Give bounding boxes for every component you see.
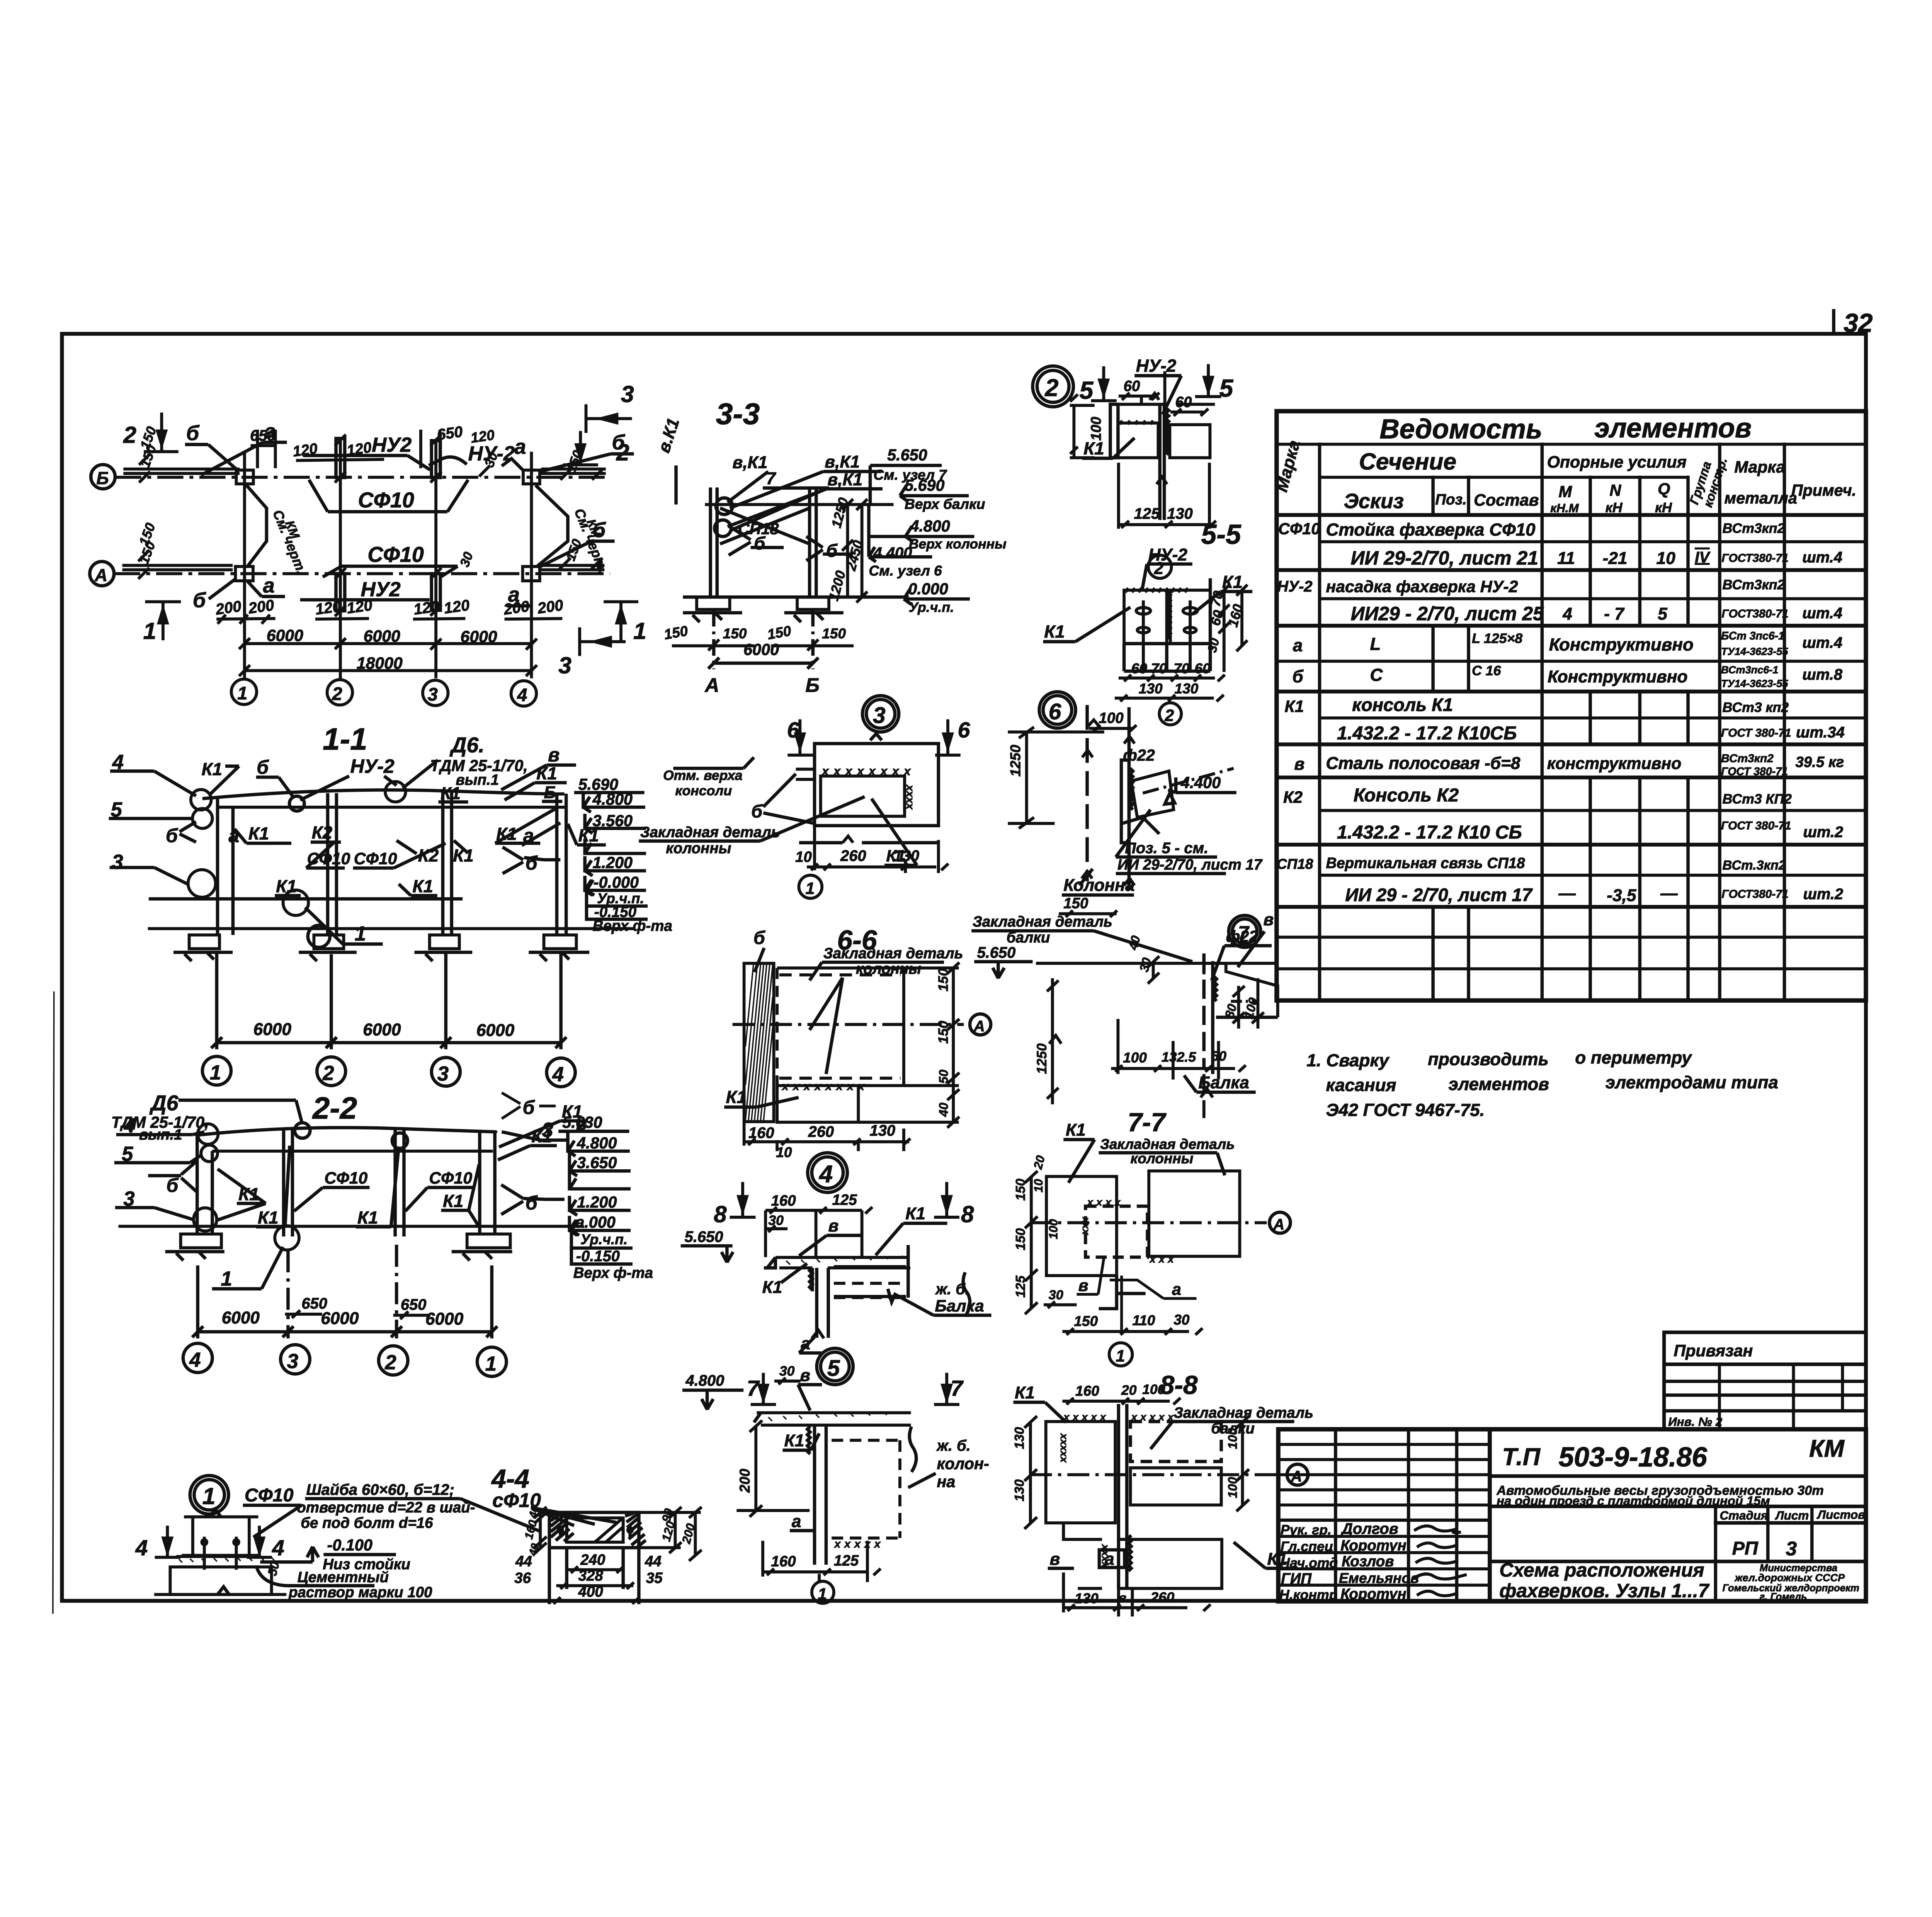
svg-text:электродами типа: электродами типа: [1605, 1073, 1778, 1092]
column 1 shaft: [480, 1132, 495, 1234]
svg-text:Эскиз: Эскиз: [1344, 490, 1404, 513]
ground line: [148, 927, 633, 931]
footing col1: [467, 1234, 510, 1248]
svg-text:СФ10: СФ10: [1278, 520, 1320, 538]
svg-text:Конструктивно: Конструктивно: [1548, 667, 1687, 686]
svg-text:металла: металла: [1725, 489, 1797, 507]
svg-text:ГОСТ380-71: ГОСТ380-71: [1722, 552, 1789, 565]
svg-text:шт.4: шт.4: [1802, 634, 1842, 651]
svg-text:БСт 3пс6-1: БСт 3пс6-1: [1721, 630, 1784, 642]
console line: [212, 1149, 493, 1153]
svg-text:Консоль К2: Консоль К2: [1354, 785, 1459, 806]
section mark 3 top right: [586, 404, 632, 433]
svg-text:Закладная деталь: Закладная деталь: [973, 913, 1112, 930]
svg-text:10: 10: [776, 1144, 792, 1160]
svg-text:35: 35: [646, 1570, 663, 1586]
svg-text:130: 130: [870, 1122, 896, 1139]
top beam: [197, 1128, 496, 1135]
corner hatches: [551, 1513, 646, 1547]
svg-text:125: 125: [832, 1192, 857, 1208]
axis tails to dim line: [217, 953, 561, 1049]
break squiggle top: [870, 734, 882, 740]
NODE1: [135, 1476, 540, 1601]
svg-text:кН.М: кН.М: [1550, 502, 1579, 515]
svg-text:200: 200: [736, 1468, 753, 1493]
svg-text:Д6: Д6: [150, 1091, 179, 1115]
svg-text:1.432.2 - 17.2 К10 СБ: 1.432.2 - 17.2 К10 СБ: [1337, 822, 1522, 843]
fachwerk post B2: [336, 439, 345, 478]
column 3 shaft: [284, 1129, 293, 1237]
column lines: [1204, 953, 1213, 1074]
svg-text:40: 40: [936, 1102, 951, 1117]
svg-text:А: А: [1273, 1216, 1284, 1233]
svg-text:60: 60: [1124, 378, 1140, 395]
beam bar B left: [122, 469, 605, 570]
node bubble 4: [808, 1153, 847, 1192]
svg-text:160: 160: [748, 1124, 774, 1141]
svg-text:К1: К1: [443, 1191, 463, 1211]
svg-text:НУ-2: НУ-2: [350, 755, 394, 777]
SEC22: [111, 1091, 653, 1376]
left hook: [754, 1413, 761, 1422]
svg-text:5: 5: [1658, 605, 1668, 624]
svg-text:3: 3: [873, 703, 886, 728]
dash-dot diagonal: [1143, 768, 1234, 793]
svg-text:колон-: колон-: [937, 1455, 989, 1473]
svg-text:8-8: 8-8: [1160, 1371, 1198, 1400]
svg-text:100: 100: [1123, 1050, 1147, 1066]
svg-text:НУ-2: НУ-2: [1148, 545, 1188, 564]
axis A: [1030, 1221, 1267, 1225]
svg-text:xxx: xxx: [1149, 1253, 1177, 1265]
svg-text:Верх балки: Верх балки: [905, 496, 985, 512]
svg-text:130: 130: [1012, 1479, 1027, 1501]
svg-text:б: б: [257, 757, 269, 778]
svg-text:6000: 6000: [425, 1310, 464, 1328]
svg-text:НУ2: НУ2: [372, 434, 412, 456]
svg-text:xxxx: xxxx: [904, 784, 916, 810]
bolts left plate: [1136, 600, 1197, 672]
svg-text:3: 3: [287, 1350, 298, 1373]
svg-text:5.690: 5.690: [905, 476, 944, 494]
svg-text:-21: -21: [1603, 549, 1628, 568]
svg-text:б: б: [753, 927, 766, 948]
svg-text:125: 125: [1134, 505, 1160, 522]
svg-text:в: в: [1050, 1550, 1060, 1568]
speckles on plate: [786, 1256, 905, 1265]
left plate: [1046, 1177, 1117, 1276]
svg-text:в: в: [1294, 755, 1304, 774]
svg-text:100: 100: [1225, 1428, 1240, 1449]
svg-text:К1: К1: [258, 1208, 278, 1227]
svg-text:60: 60: [1195, 660, 1211, 677]
svg-text:б: б: [526, 852, 538, 874]
SHEET-FRAME: [53, 309, 1873, 1614]
svg-text:ИИ 29-2/70, лист 17: ИИ 29-2/70, лист 17: [1117, 857, 1263, 873]
svg-text:150: 150: [935, 1021, 951, 1044]
svg-text:шт.2: шт.2: [1803, 886, 1843, 903]
svg-text:ТУ14-3623-55: ТУ14-3623-55: [1721, 677, 1788, 689]
bolt marks inside: [558, 1526, 633, 1537]
weld dots on K1 top: [1120, 421, 1153, 424]
svg-text:44: 44: [515, 1553, 532, 1570]
grout speckle band: [176, 1556, 260, 1567]
K1 plate below: [777, 1085, 858, 1122]
table horizontal lines: [1277, 444, 1866, 969]
node circle col2 top: [392, 1133, 408, 1148]
footing col4: [544, 935, 576, 949]
break marks bottom: [1082, 871, 1134, 885]
node circle col3 top: [295, 1123, 310, 1138]
svg-text:7-7: 7-7: [1128, 1108, 1167, 1137]
svg-text:К1: К1: [531, 1126, 552, 1146]
svg-text:бе под болт d=16: бе под болт d=16: [301, 1515, 433, 1531]
svg-text:xxxxx: xxxxx: [1063, 1411, 1109, 1423]
right plate: [1170, 425, 1210, 458]
bubble 1: [1109, 1343, 1133, 1366]
dim line 6000s: [245, 641, 532, 646]
svg-text:конструктивно: конструктивно: [1547, 754, 1682, 773]
svg-text:элементов: элементов: [1594, 413, 1752, 444]
svg-text:3.650: 3.650: [577, 1154, 617, 1172]
lower left lines: [799, 840, 843, 845]
top plate: [757, 1413, 911, 1425]
svg-text:4: 4: [1562, 605, 1572, 624]
svg-text:Емельянов: Емельянов: [1339, 1570, 1419, 1586]
column axis 1: [242, 452, 247, 679]
svg-text:Т.П: Т.П: [1502, 1443, 1541, 1470]
svg-text:Поз.: Поз.: [1435, 492, 1466, 508]
svg-text:в: в: [548, 744, 560, 766]
section mark 3 bottom right: [580, 628, 626, 656]
svg-text:К1: К1: [357, 1208, 378, 1227]
svg-text:1.200: 1.200: [577, 1193, 617, 1211]
svg-text:1-1: 1-1: [323, 722, 367, 756]
svg-text:200: 200: [536, 597, 564, 617]
svg-text:К1: К1: [413, 876, 433, 896]
svg-text:а: а: [1293, 636, 1303, 655]
svg-text:элементов: элементов: [1449, 1074, 1549, 1094]
page number tick: [1832, 309, 1836, 335]
NODE3: [639, 696, 970, 898]
svg-text:К1: К1: [276, 876, 296, 896]
svg-text:а: а: [514, 435, 526, 459]
svg-text:К2: К2: [418, 845, 439, 865]
svg-text:1.200: 1.200: [593, 854, 633, 871]
top flange line: [1119, 402, 1215, 407]
svg-text:на: на: [937, 1473, 955, 1490]
outer rect: [549, 1512, 639, 1548]
svg-text:4: 4: [272, 1536, 284, 1560]
svg-text:10: 10: [1656, 549, 1676, 568]
weld zigzag on plate: [1130, 768, 1133, 810]
TITLEBLOCK: [1278, 1332, 1866, 1602]
svg-text:СФ10: СФ10: [325, 1169, 368, 1187]
svg-text:Б: Б: [544, 783, 556, 802]
svg-text:2: 2: [123, 422, 136, 448]
svg-text:8: 8: [961, 1201, 974, 1227]
svg-text:ИИ 29-2/70, лист 21: ИИ 29-2/70, лист 21: [1351, 547, 1538, 569]
svg-text:Гл.спец: Гл.спец: [1281, 1539, 1333, 1554]
svg-text:2-2: 2-2: [312, 1091, 357, 1125]
NODE7: [971, 910, 1277, 1118]
svg-text:Рук. гр.: Рук. гр.: [1281, 1522, 1332, 1538]
plate on column: [1121, 760, 1129, 843]
svg-text:200: 200: [214, 598, 242, 618]
svg-text:вып.1: вып.1: [456, 772, 499, 788]
svg-text:в: в: [1264, 910, 1274, 929]
title block right horizontal lines: [1490, 1476, 1866, 1561]
svg-text:30: 30: [768, 1213, 784, 1228]
axis tails: [198, 1245, 492, 1338]
node circle col3 top: [385, 782, 406, 802]
svg-text:160: 160: [771, 1192, 796, 1209]
beam end plate right: [834, 1245, 908, 1298]
right plate: [1170, 590, 1210, 643]
svg-text:Марка: Марка: [1734, 458, 1785, 476]
svg-text:в: в: [1078, 1276, 1088, 1295]
beam top line: [1036, 961, 1278, 965]
svg-text:Поз. 5 - см.: Поз. 5 - см.: [1125, 840, 1208, 857]
middle weld strip: [1168, 592, 1170, 639]
NODE6: [1007, 692, 1263, 917]
svg-text:10: 10: [795, 849, 812, 866]
svg-text:ВСт3 КП2: ВСт3 КП2: [1723, 791, 1792, 807]
svg-text:ВСт3кп2: ВСт3кп2: [1721, 752, 1774, 765]
bubble 2 below: [1148, 555, 1172, 578]
svg-text:б: б: [523, 1097, 535, 1118]
svg-text:—: —: [1660, 884, 1678, 903]
svg-text:1: 1: [202, 1483, 216, 1509]
column 4 shaft: [557, 794, 566, 935]
section mark 1 right: [604, 602, 638, 640]
svg-text:Закладная деталь: Закладная деталь: [823, 945, 963, 962]
column 2 shaft: [395, 1129, 404, 1237]
svg-text:4.800: 4.800: [685, 1372, 724, 1389]
svg-text:К1: К1: [1083, 439, 1104, 458]
svg-text:400: 400: [578, 1584, 604, 1600]
svg-text:1: 1: [237, 683, 247, 703]
svg-text:А: А: [1291, 1468, 1302, 1485]
svg-text:130: 130: [1174, 680, 1198, 697]
svg-text:150: 150: [1063, 895, 1088, 912]
fachwerk post A2: [336, 574, 345, 611]
right plate mid: [1130, 1468, 1221, 1505]
svg-text:РП: РП: [1732, 1538, 1759, 1559]
svg-text:Н.контр: Н.контр: [1279, 1587, 1337, 1602]
svg-text:4.800: 4.800: [910, 517, 950, 535]
svg-text:1: 1: [355, 922, 366, 945]
svg-text:ф22: ф22: [1123, 746, 1155, 764]
top plate: [776, 1255, 908, 1260]
svg-text:xxxx: xxxx: [1087, 1196, 1124, 1208]
lower part lines: [1124, 578, 1210, 671]
svg-text:125: 125: [834, 1553, 859, 1569]
speckles: [768, 1412, 886, 1421]
svg-text:1: 1: [806, 879, 815, 898]
svg-text:-0.000: -0.000: [594, 874, 639, 891]
column axis 3: [434, 441, 438, 678]
column axis 4: [529, 452, 534, 679]
svg-text:а: а: [1172, 1280, 1181, 1299]
right plate upper dashed: [1130, 1422, 1221, 1461]
break squiggle: [1150, 393, 1159, 400]
svg-text:К1: К1: [886, 847, 905, 865]
svg-text:а.000: а.000: [575, 1213, 615, 1231]
svg-text:Долгов: Долгов: [1340, 1521, 1398, 1538]
column node A4: [523, 566, 540, 581]
dashed top edge: [779, 973, 901, 977]
signature squiggles: [1414, 1526, 1465, 1596]
svg-text:Листов: Листов: [1817, 1508, 1866, 1521]
bottom edge: [154, 1592, 286, 1597]
svg-text:СФ10: СФ10: [367, 543, 423, 566]
svg-text:б: б: [826, 540, 838, 561]
svg-text:б: б: [754, 533, 766, 553]
svg-text:1: 1: [210, 1061, 221, 1084]
svg-text:3: 3: [621, 381, 634, 407]
svg-text:Коротун: Коротун: [1340, 1537, 1406, 1554]
console line: [218, 805, 567, 809]
svg-text:НУ-2: НУ-2: [1277, 578, 1312, 595]
svg-text:ГОСТ 380-71: ГОСТ 380-71: [1721, 726, 1791, 739]
beam line: [705, 502, 893, 507]
svg-text:130: 130: [1139, 680, 1163, 697]
svg-text:328: 328: [578, 1568, 604, 1584]
svg-text:110: 110: [1132, 1312, 1155, 1328]
svg-text:К1: К1: [1066, 1121, 1086, 1140]
node bubble 5: [817, 1348, 853, 1385]
svg-text:ВСт3 кп2: ВСт3 кп2: [1723, 699, 1789, 715]
svg-text:жел.дорожных СССР: жел.дорожных СССР: [1734, 1572, 1845, 1584]
left end hook: [764, 1257, 776, 1268]
beam break right: [963, 1272, 970, 1317]
svg-text:Коротун: Коротун: [1340, 1586, 1406, 1602]
svg-text:650: 650: [401, 1296, 427, 1313]
left plate: [1124, 590, 1167, 643]
svg-text:шт.34: шт.34: [1796, 724, 1845, 741]
bubble 1: [812, 1581, 834, 1603]
svg-text:Закладная деталь: Закладная деталь: [640, 824, 780, 841]
svg-text:касания: касания: [1326, 1075, 1396, 1095]
svg-text:1: 1: [143, 617, 156, 644]
svg-text:260: 260: [840, 847, 866, 864]
svg-text:Б: Б: [96, 468, 109, 488]
beam bottom lines: [1216, 1015, 1278, 1020]
break squiggle col: [1156, 477, 1167, 484]
svg-text:б: б: [1292, 667, 1304, 686]
svg-text:Сталь полосовая -б=8: Сталь полосовая -б=8: [1326, 754, 1520, 773]
svg-text:4.800: 4.800: [577, 1134, 617, 1152]
svg-text:Шайба 60×60, б=12;: Шайба 60×60, б=12;: [306, 1481, 454, 1498]
break marks column: [1082, 737, 1134, 757]
svg-text:ГОСТ380-71: ГОСТ380-71: [1722, 607, 1789, 620]
svg-text:4.800: 4.800: [592, 790, 633, 808]
svg-text:Привязан: Привязан: [1674, 1342, 1753, 1360]
svg-text:1250: 1250: [1007, 745, 1023, 777]
inner plate: [821, 776, 905, 816]
svg-text:шт.2: шт.2: [1803, 824, 1843, 841]
column lines: [1087, 705, 1129, 889]
svg-text:Конструктивно: Конструктивно: [1549, 634, 1694, 654]
svg-text:К2: К2: [312, 823, 332, 842]
dashed column right: [832, 1440, 900, 1538]
svg-text:С 16: С 16: [1472, 663, 1501, 679]
TABLE: [1272, 411, 1866, 1000]
axis B dash-dot: [115, 475, 610, 480]
svg-text:С: С: [1370, 665, 1383, 685]
svg-text:160: 160: [1075, 1383, 1099, 1399]
svg-text:1.432.2 - 17.2 К10СБ: 1.432.2 - 17.2 К10СБ: [1337, 723, 1517, 744]
axis bubble 1: [231, 679, 257, 705]
main plate: [777, 968, 904, 1085]
svg-text:на один проезд с платформо: на один проезд с платформой длиной 15м: [1497, 1493, 1770, 1508]
svg-text:б: б: [166, 825, 178, 846]
column axis 2: [338, 441, 342, 678]
svg-text:6000: 6000: [253, 1020, 292, 1039]
svg-text:СФ10: СФ10: [429, 1169, 472, 1187]
svg-text:150: 150: [1074, 1313, 1098, 1329]
inner rect: [567, 1518, 623, 1542]
svg-text:ГОСТ 380-71: ГОСТ 380-71: [1721, 765, 1788, 778]
SEC11: [109, 722, 672, 1087]
beam break right: [910, 1427, 917, 1472]
svg-text:А: А: [94, 565, 107, 585]
svg-text:Верх ф-та: Верх ф-та: [573, 1265, 653, 1281]
axis A dash-dot: [114, 572, 610, 576]
svg-text:К1: К1: [536, 764, 557, 783]
axis circle A: [90, 561, 114, 586]
hatch top of left plate: [1125, 588, 1188, 592]
footing col4: [181, 1234, 221, 1248]
svg-text:Стадия: Стадия: [1720, 1509, 1768, 1522]
svg-text:ТУ14-3623-55: ТУ14-3623-55: [1721, 645, 1788, 657]
svg-text:1. Сварку: 1. Сварку: [1307, 1051, 1390, 1070]
svg-text:а: а: [792, 1512, 801, 1531]
svg-text:L 125×8: L 125×8: [1472, 631, 1522, 646]
svg-text:Балка: Балка: [935, 1297, 984, 1315]
svg-text:4: 4: [189, 1349, 201, 1371]
axis bubble 3: [423, 680, 448, 706]
svg-text:2: 2: [332, 684, 342, 704]
svg-text:0.000: 0.000: [908, 580, 948, 598]
SEC66: [724, 925, 991, 1160]
axis bubble 4: [511, 681, 537, 706]
svg-text:2: 2: [322, 1062, 334, 1085]
axis tails: [714, 610, 813, 669]
level tier blank: [570, 1172, 631, 1189]
beam taper: [1204, 963, 1278, 1017]
left outer hairline: [53, 992, 54, 1614]
svg-text:30: 30: [779, 1363, 795, 1379]
svg-text:б: б: [526, 1192, 538, 1214]
node circles col1: [191, 789, 211, 810]
svg-text:о периметру: о периметру: [1575, 1048, 1692, 1067]
svg-text:4: 4: [818, 1161, 833, 1188]
NODE2: [1032, 356, 1233, 578]
svg-text:Опорные усилия: Опорные усилия: [1547, 453, 1687, 471]
svg-text:100: 100: [1088, 417, 1104, 441]
sheet border frame: [62, 334, 1866, 1601]
svg-text:Q: Q: [1658, 480, 1670, 498]
svg-text:2: 2: [1045, 374, 1059, 401]
svg-text:1: 1: [485, 1352, 497, 1375]
column stub: [184, 1517, 258, 1555]
svg-text:Д6.: Д6.: [449, 733, 485, 757]
svg-text:7: 7: [766, 469, 777, 488]
svg-text:7: 7: [747, 1376, 760, 1401]
svg-text:Ведомость: Ведомость: [1379, 414, 1542, 445]
